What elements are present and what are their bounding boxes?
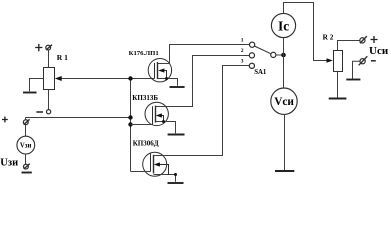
svg-text:2: 2 (241, 48, 244, 54)
svg-text:1: 1 (241, 38, 244, 44)
svg-text:Uси: Uси (369, 45, 389, 57)
svg-text:Uзи: Uзи (0, 158, 18, 169)
svg-text:R 1: R 1 (57, 53, 68, 62)
svg-text:КП313Б: КП313Б (132, 94, 158, 102)
svg-text:Vзи: Vзи (20, 142, 32, 149)
svg-text:3: 3 (241, 59, 244, 65)
svg-text:Vси: Vси (274, 96, 294, 108)
svg-text:SA1: SA1 (254, 69, 267, 76)
svg-text:R 2: R 2 (323, 33, 334, 42)
svg-text:Iс: Iс (278, 18, 289, 33)
svg-text:КП306Д: КП306Д (133, 140, 159, 148)
svg-text:К176.ЛП1: К176.ЛП1 (129, 50, 159, 57)
